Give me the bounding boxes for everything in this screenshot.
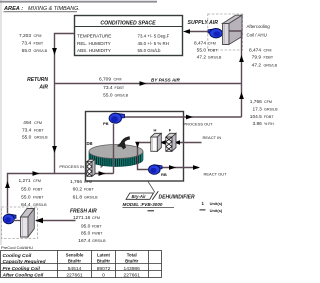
svg-text:104.5: 104.5	[250, 114, 262, 120]
svg-text:CONDITIONED SPACE: CONDITIONED SPACE	[100, 20, 156, 26]
svg-text:167.4: 167.4	[78, 238, 90, 244]
svg-text:GRS/LB: GRS/LB	[208, 55, 222, 59]
svg-text:55.0: 55.0	[21, 195, 31, 201]
svg-text:% RH: % RH	[264, 122, 274, 126]
arrow right after filter	[99, 171, 106, 176]
svg-text:FDBT: FDBT	[208, 49, 218, 53]
svg-text:GRS/LB: GRS/LB	[33, 203, 47, 207]
arrow up on riser mid	[239, 92, 244, 99]
svg-text:Pre Cooling Coil: Pre Cooling Coil	[3, 266, 41, 272]
fresh air wire	[36, 220, 76, 222]
svg-text:47.2: 47.2	[197, 54, 207, 60]
capacity table	[1, 251, 162, 278]
precool coil 3D	[21, 209, 35, 238]
svg-text:CFM: CFM	[114, 77, 122, 81]
svg-text:CFM: CFM	[264, 100, 272, 104]
svg-text:494: 494	[23, 120, 31, 126]
svg-text:Aftercooling: Aftercooling	[247, 24, 271, 29]
svg-text:73.4: 73.4	[22, 127, 32, 133]
process in wire	[8, 174, 55, 214]
arrow into conditioned space	[183, 29, 190, 34]
svg-text:CFM: CFM	[33, 179, 41, 183]
react in wire	[184, 142, 202, 144]
top rule	[0, 1, 157, 3]
svg-text:55.0: 55.0	[103, 92, 113, 98]
svg-text:AIR: AIR	[38, 85, 48, 91]
svg-text:FDBT: FDBT	[84, 188, 94, 192]
desiccant wheel DB	[89, 145, 143, 167]
svg-text:73.4: 73.4	[103, 85, 113, 91]
svg-text:Btu/Hr: Btu/Hr	[125, 259, 138, 264]
wheel rotation arrow	[117, 138, 130, 149]
svg-text:After Cooling Coil: After Cooling Coil	[2, 273, 44, 279]
svg-text:GRS/LB: GRS/LB	[34, 136, 48, 140]
svg-text:1,766: 1,766	[70, 179, 82, 185]
svg-text:PROCESS IN: PROCESS IN	[59, 164, 84, 169]
process filter F (left)	[87, 159, 95, 176]
svg-text:Unit(s): Unit(s)	[210, 201, 223, 206]
svg-text:7,203: 7,203	[19, 33, 31, 39]
svg-text:Bry-Air: Bry-Air	[132, 194, 147, 199]
process riser inside box	[113, 124, 115, 174]
svg-text:PreCool Coil/AHU: PreCool Coil/AHU	[1, 245, 33, 250]
supply wire into box	[187, 31, 209, 33]
react filter F (right)	[166, 133, 176, 151]
return wire from box	[55, 34, 114, 174]
svg-text:Capacity Required: Capacity Required	[3, 259, 47, 265]
svg-text:Btu/Hr: Btu/Hr	[97, 259, 110, 264]
arrow right before junction	[33, 171, 40, 176]
svg-text:73.4 +/- 5 Deg.F: 73.4 +/- 5 Deg.F	[138, 33, 170, 38]
svg-text:GRS/LB: GRS/LB	[92, 239, 106, 243]
svg-text:H: H	[154, 128, 157, 133]
svg-text:0: 0	[102, 273, 105, 279]
react heater H	[151, 133, 162, 151]
svg-text:47.2: 47.2	[252, 62, 262, 68]
svg-text:8,474: 8,474	[194, 41, 206, 47]
svg-text:TEMPERATURE: TEMPERATURE	[77, 33, 111, 38]
svg-text:DB: DB	[87, 141, 93, 146]
svg-text:FRESH AIR: FRESH AIR	[70, 208, 97, 214]
wire coil to supply riser	[229, 31, 242, 117]
precool dashed enclosure	[2, 207, 38, 239]
arrow up to mix	[5, 181, 10, 188]
svg-text:FDBT: FDBT	[33, 187, 43, 191]
svg-text:CFM: CFM	[264, 48, 272, 52]
svg-text:FWBT: FWBT	[33, 196, 44, 200]
react out wire	[158, 167, 199, 169]
svg-text:227661: 227661	[66, 273, 83, 279]
svg-text:GRS/LB: GRS/LB	[84, 195, 98, 199]
svg-text:73.4: 73.4	[22, 41, 32, 47]
react drop to RB	[138, 143, 149, 170]
conditioned space box	[75, 16, 183, 56]
svg-text:227661: 227661	[124, 273, 141, 279]
svg-text:FWBT: FWBT	[92, 232, 103, 236]
svg-text:FVB-3000: FVB-3000	[142, 202, 163, 207]
svg-text:89072: 89072	[97, 266, 111, 272]
svg-text:BY PASS AIR: BY PASS AIR	[151, 77, 180, 82]
svg-text:PROCESS OUT: PROCESS OUT	[184, 121, 214, 126]
svg-text:GRS/LB: GRS/LB	[115, 93, 129, 97]
svg-text:6,709: 6,709	[99, 76, 111, 82]
left page edge	[0, 0, 2, 245]
svg-text:1271.16: 1271.16	[73, 215, 91, 221]
svg-text:79.9: 79.9	[252, 55, 262, 61]
supply fan U-SF	[208, 29, 222, 38]
svg-text:ABS. HUMIDITY: ABS. HUMIDITY	[77, 48, 111, 53]
svg-text:Cooling Coil: Cooling Coil	[3, 253, 32, 259]
svg-text:FDBT: FDBT	[34, 42, 44, 46]
fan to coil wire	[13, 220, 21, 222]
svg-text:REACT OUT: REACT OUT	[204, 172, 228, 177]
svg-text:RB: RB	[161, 172, 167, 177]
svg-text:MIXING & TIMBANG.: MIXING & TIMBANG.	[28, 6, 80, 12]
svg-text:CFM: CFM	[208, 42, 216, 46]
svg-text:Total: Total	[127, 252, 137, 257]
svg-text:Latent: Latent	[97, 252, 110, 257]
svg-text:FDBT: FDBT	[34, 128, 44, 132]
svg-text:FDBT: FDBT	[115, 86, 125, 90]
react wire through H F	[139, 142, 184, 144]
svg-text:1,271: 1,271	[18, 178, 30, 184]
aftercooling coil 3D	[223, 14, 245, 45]
svg-text:FDBT: FDBT	[264, 115, 274, 119]
svg-text:MODEL :: MODEL :	[123, 202, 143, 207]
svg-text:GRS/LB: GRS/LB	[34, 49, 48, 53]
aftercooling dashed enclosure	[208, 14, 243, 50]
svg-text:8,474: 8,474	[249, 47, 261, 53]
svg-text:Btu/Hr: Btu/Hr	[68, 259, 81, 264]
svg-text:GRS/LB: GRS/LB	[264, 63, 278, 67]
svg-text:PB: PB	[103, 121, 109, 126]
process out wire	[122, 116, 242, 118]
svg-text:CFM: CFM	[34, 34, 42, 38]
svg-text:64.4: 64.4	[21, 202, 31, 208]
svg-text:95.0: 95.0	[81, 223, 91, 229]
svg-text:Coil / AHU: Coil / AHU	[247, 33, 267, 38]
svg-text:GRS/LB: GRS/LB	[264, 107, 278, 111]
svg-text:85.0: 85.0	[81, 231, 91, 237]
Bry-Air logo	[126, 191, 158, 200]
RB blower	[149, 165, 163, 175]
svg-text:45.0 +/- 5 % RH: 45.0 +/- 5 % RH	[138, 41, 169, 46]
svg-text:AREA :: AREA :	[3, 6, 23, 12]
svg-text:CFM: CFM	[92, 216, 100, 220]
svg-text:55.0: 55.0	[21, 186, 31, 192]
svg-text:REL. HUMIDITY: REL. HUMIDITY	[77, 41, 111, 46]
svg-text:1,766: 1,766	[250, 99, 262, 105]
svg-text:CFM: CFM	[34, 121, 42, 125]
dehumidifier box	[86, 112, 184, 182]
svg-text:143986: 143986	[124, 266, 141, 272]
svg-text:FDBT: FDBT	[264, 56, 274, 60]
svg-text:17.3: 17.3	[252, 106, 262, 112]
arrow down on return (lower)	[52, 146, 57, 153]
svg-text:61.8: 61.8	[73, 194, 83, 200]
svg-text:DEHUMIDIFIER: DEHUMIDIFIER	[159, 194, 196, 200]
svg-text:Sensible: Sensible	[66, 252, 84, 257]
svg-text:55.0: 55.0	[22, 135, 32, 141]
bypass wire	[55, 83, 242, 85]
svg-text:3.86: 3.86	[252, 121, 262, 127]
svg-text:REACT IN: REACT IN	[203, 135, 222, 140]
precool fan	[3, 214, 16, 224]
leader line to logo	[148, 182, 155, 193]
svg-text:Unit(s): Unit(s)	[210, 208, 223, 213]
svg-text:FDBT: FDBT	[92, 224, 102, 228]
svg-text:54514: 54514	[68, 266, 82, 272]
svg-text:55.0: 55.0	[197, 48, 207, 54]
svg-text:RETURN: RETURN	[27, 77, 48, 83]
PB blower	[109, 113, 124, 123]
arrow down on return (upper)	[52, 48, 57, 55]
svg-text:SUPPLY AIR: SUPPLY AIR	[188, 20, 219, 26]
svg-text:55.0 Grs/Lb: 55.0 Grs/Lb	[138, 48, 161, 53]
svg-text:CFM: CFM	[84, 180, 92, 184]
svg-text:55.0: 55.0	[22, 48, 32, 54]
svg-text:60.2: 60.2	[73, 187, 83, 193]
arrow up on riser top	[239, 55, 244, 62]
